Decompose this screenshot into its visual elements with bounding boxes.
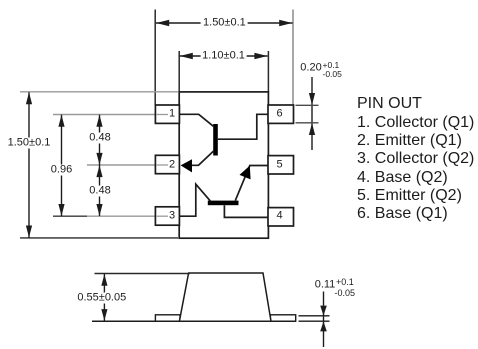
extension line left of 1.10 dimension — [178, 51, 180, 92]
pinout item 3 — [357, 150, 474, 168]
tolerance text +0.1 (for 0.20) — [323, 61, 340, 70]
pin 2 box — [155, 155, 179, 173]
tolerance text +0.1 (for 0.11) — [336, 278, 354, 287]
side view package body (trapezoid) — [179, 273, 271, 321]
package body outline — [179, 92, 268, 238]
centerline pin 2 (gray) — [87, 164, 169, 166]
dimension 0.11 arrow upper (points down) — [323, 292, 325, 348]
wire Q2 base to pin 4 — [224, 205, 268, 217]
dimension line 1.50 top — [156, 22, 293, 24]
dimension text 1.50±0.1 (left) — [6, 137, 53, 148]
extension line body top (left, gray) — [20, 91, 178, 93]
centerline pin 3 (gray) — [53, 215, 87, 217]
centerline pin 3 (gray continuation) — [87, 215, 169, 217]
dimension text 0.11 — [313, 280, 338, 291]
dimension line 1.50 left (vertical) — [28, 92, 30, 237]
extension line body bottom (left) — [20, 237, 178, 239]
pin 3 box — [155, 207, 179, 225]
pin 5 box — [268, 156, 294, 174]
wire Q1 emitter to pin 2 — [191, 151, 214, 165]
pin 6 box — [268, 105, 294, 123]
transistor Q2 base bar — [208, 201, 239, 206]
pin 4 number label — [274, 211, 284, 222]
dimension 0.20 arrow upper (points down to pin 6 top) — [311, 77, 313, 150]
centerline stub into pin 2 box — [156, 164, 168, 166]
pin 2 number label — [167, 159, 177, 170]
wire Q1 collector to pin 1 — [179, 114, 213, 126]
dimension line 0.55 (vertical) — [103, 274, 105, 321]
dimension line 0.96 (vertical) — [61, 115, 63, 216]
wire Q1 base to pin 6 — [218, 114, 268, 139]
extension line left of 1.50 top dimension — [154, 10, 156, 106]
side view left lead — [155, 315, 180, 321]
dimension text 0.20 — [298, 63, 323, 74]
extension line seating plane (for 0.11) — [299, 320, 330, 322]
extension line right of 1.50 top dimension — [292, 10, 294, 106]
wire Q2 collector to pin 3 — [179, 184, 211, 216]
pin 6 number label — [274, 109, 284, 120]
transistor Q1 base bar — [213, 124, 218, 156]
extension line lead top (for 0.11) — [299, 315, 330, 317]
dimension 0.20 arrow lower (points up to pin 6 bottom) — [309, 123, 315, 135]
pinout item 6 — [357, 205, 448, 223]
pin 1 box — [155, 105, 179, 123]
pinout item 2 — [357, 132, 462, 150]
dimension text 0.55±0.05 — [75, 292, 128, 303]
pin 1 number label — [167, 109, 177, 120]
extension line pin 6 bottom edge — [296, 122, 319, 124]
wire Q2 emitter to pin 5 — [235, 166, 268, 201]
side view right lead — [270, 315, 295, 321]
dimension line 0.48 lower (vertical) — [99, 165, 101, 216]
dimension text 0.48 (upper) — [87, 133, 112, 144]
dimension text 0.96 — [49, 165, 74, 176]
extension line pin 6 top edge — [296, 104, 319, 106]
tolerance text -0.05 (for 0.11) — [335, 289, 356, 298]
dimension line 0.48 upper (vertical) — [99, 115, 101, 165]
centerline pin 1 (gray) — [53, 114, 169, 116]
pin 5 number label — [274, 159, 284, 170]
pinout heading — [357, 95, 422, 113]
arrowhead Q1 emitter (points to pin 2) — [181, 159, 192, 172]
pinout item 1 — [357, 114, 474, 132]
arrowhead Q2 emitter (points to pin 5) — [240, 166, 251, 180]
pinout item 4 — [357, 169, 448, 187]
dimension text 0.48 (lower) — [87, 185, 112, 196]
extension line right of 1.10 dimension — [267, 51, 269, 92]
centerline stub into pin 1 box — [156, 114, 168, 116]
pinout item 5 — [357, 187, 462, 205]
dimension 0.11 arrow lower (points up) — [320, 321, 327, 331]
dimension line 1.10 — [180, 55, 268, 57]
pin 3 number label — [167, 211, 177, 222]
side view seating plane line — [92, 320, 296, 322]
dimension text 1.50±0.1 (top) — [201, 18, 248, 29]
pin 4 box — [268, 208, 294, 226]
extension line body top (side view, for 0.55) — [95, 273, 191, 275]
centerline stub into pin 3 box — [156, 215, 168, 217]
dimension text 1.10±0.1 — [200, 51, 247, 62]
tolerance text -0.05 (for 0.20) — [323, 70, 342, 79]
